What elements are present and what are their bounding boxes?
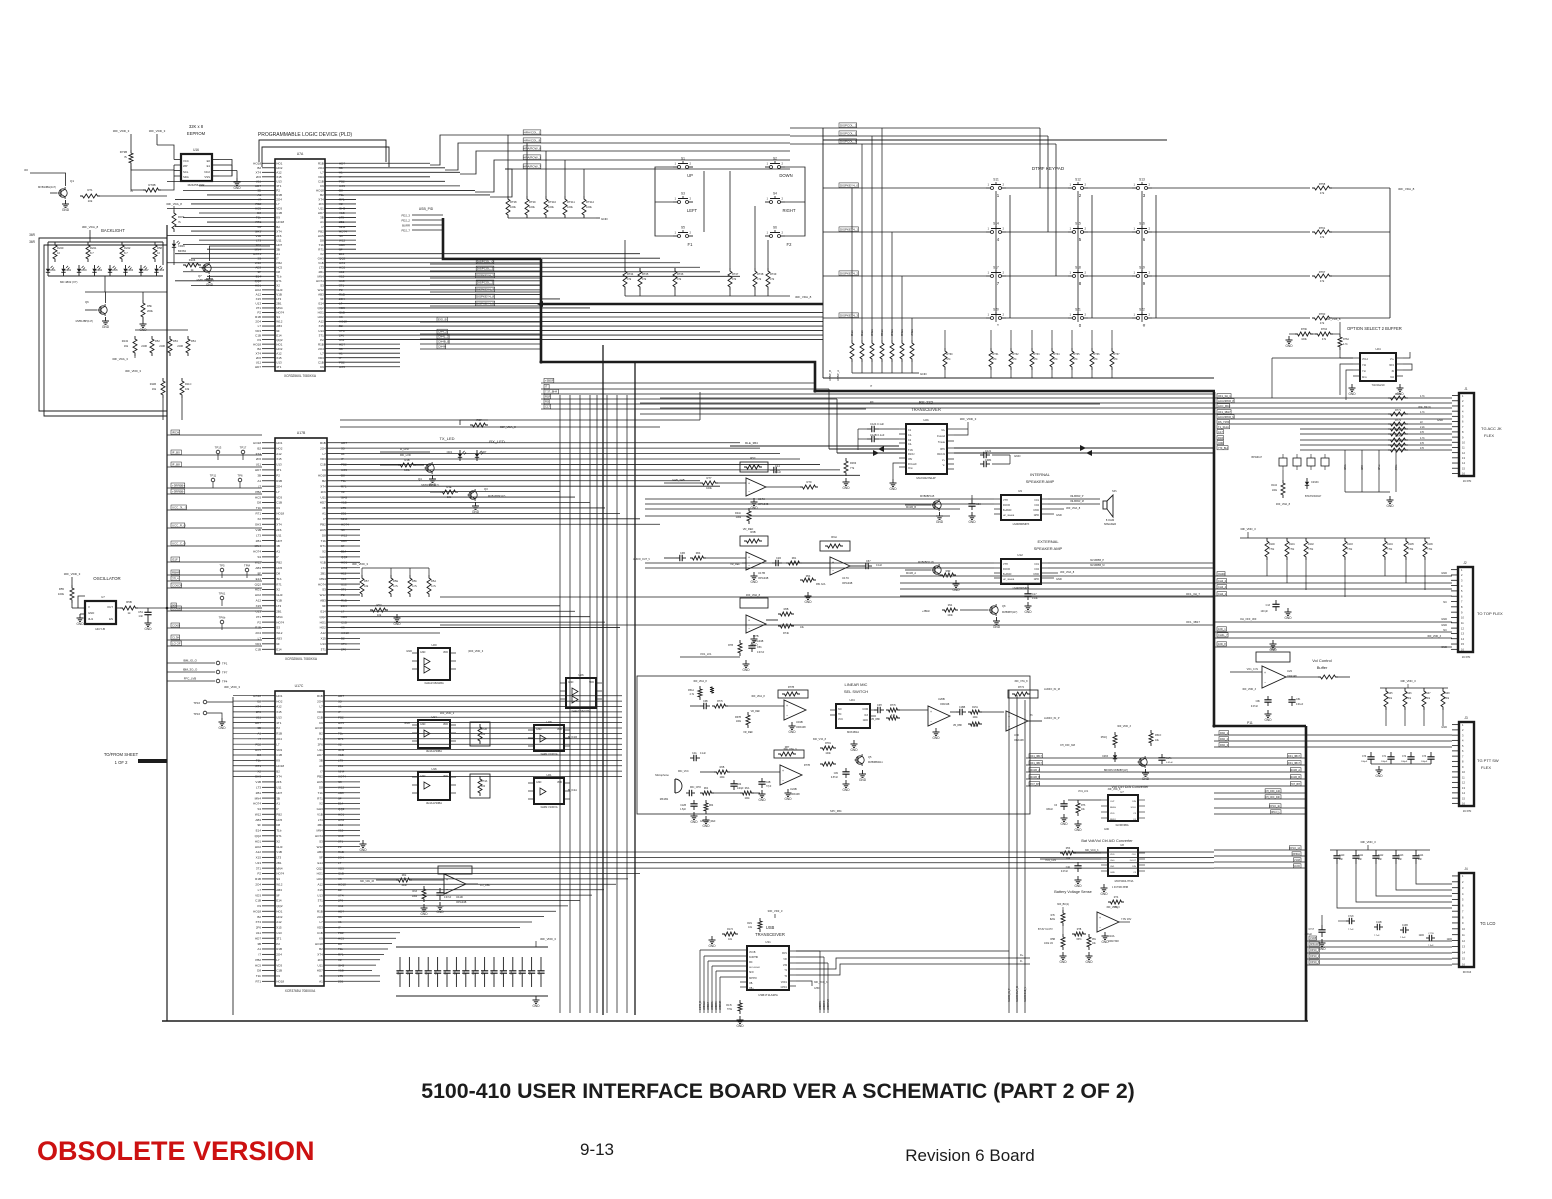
svg-text:U12: U12 xyxy=(1017,553,1023,557)
svg-text:2O4: 2O4 xyxy=(318,347,324,351)
svg-text:XT4: XT4 xyxy=(320,484,326,488)
svg-text:770k: 770k xyxy=(1408,548,1414,551)
svg-text:VD3: VD3 xyxy=(255,329,261,333)
svg-text:LINEAR MIC: LINEAR MIC xyxy=(845,682,868,687)
svg-text:FLEX: FLEX xyxy=(1481,765,1491,770)
svg-text:+: + xyxy=(1264,671,1266,675)
svg-text:AB3: AB3 xyxy=(320,599,326,603)
resistor R76m xyxy=(1338,334,1342,350)
svg-text:L7: L7 xyxy=(319,705,323,709)
svg-text:C2R: C2R xyxy=(776,557,781,560)
svg-text:I/O2: I/O2 xyxy=(1034,568,1039,571)
svg-text:PAD_1: PAD_1 xyxy=(1220,731,1229,735)
svg-text:R242: R242 xyxy=(124,246,131,250)
svg-text:1 OF 2: 1 OF 2 xyxy=(115,760,128,765)
svg-text:A12: A12 xyxy=(276,351,282,355)
svg-text:2B1: 2B1 xyxy=(276,609,282,613)
resistor R70B xyxy=(143,188,161,192)
svg-text:L7: L7 xyxy=(276,742,280,746)
svg-text:MK1B1: MK1B1 xyxy=(660,797,669,801)
svg-text:GND: GND xyxy=(420,723,426,726)
svg-text:UCC_C_O: UCC_C_O xyxy=(172,542,187,546)
svg-text:2F6: 2F6 xyxy=(256,457,262,461)
svg-text:INL3BKR_M: INL3BKR_M xyxy=(1070,500,1084,503)
switch S3 LEFT xyxy=(673,201,678,203)
svg-text:77k: 77k xyxy=(850,466,855,470)
U19B gnd xyxy=(791,722,793,726)
svg-text:2B1: 2B1 xyxy=(317,823,323,827)
svg-text:LM4890MPX: LM4890MPX xyxy=(1013,522,1030,526)
svg-text:OPA348: OPA348 xyxy=(940,703,950,706)
svg-text:GND: GND xyxy=(1142,777,1150,781)
svg-text:100k: 100k xyxy=(58,592,65,596)
svg-text:R105: R105 xyxy=(1408,543,1414,546)
svg-text:30F_VDD_3: 30F_VDD_3 xyxy=(1240,527,1256,531)
svg-text:HO18: HO18 xyxy=(315,726,323,730)
J2 pullup bank xyxy=(1240,537,1430,539)
svg-text:47k: 47k xyxy=(1320,321,1325,325)
resistor R76b xyxy=(1295,332,1313,336)
svg-text:X15: X15 xyxy=(256,604,262,608)
svg-text:R6B: R6B xyxy=(750,530,755,534)
resistor R41b xyxy=(747,508,751,524)
svg-text:W12: W12 xyxy=(276,320,283,324)
svg-text:30F_VCO_3: 30F_VCO_3 xyxy=(814,981,828,984)
svg-text:GH3: GH3 xyxy=(276,845,283,849)
DF1 wire bundle 2 xyxy=(1214,792,1305,794)
svg-text:100k: 100k xyxy=(1272,489,1278,492)
U17A input R xyxy=(700,481,718,485)
svg-text:T1b: T1b xyxy=(276,577,282,581)
switch wires 2 xyxy=(785,167,805,236)
svg-text:GND: GND xyxy=(429,483,437,487)
U10A gnd xyxy=(1104,932,1106,936)
svg-text:W12: W12 xyxy=(318,288,325,292)
U17B gnd2 xyxy=(753,572,755,576)
svg-text:MIC_CHO: MIC_CHO xyxy=(690,786,701,789)
svg-text:PB2: PB2 xyxy=(320,522,326,526)
IC U2b RS232 box xyxy=(906,424,947,474)
svg-text:77pF: 77pF xyxy=(766,786,772,788)
keypad col elbows xyxy=(995,191,997,322)
svg-text:GND: GND xyxy=(1318,947,1326,951)
svg-text:I31F: I31F xyxy=(172,558,178,562)
svg-text:Q7: Q7 xyxy=(198,274,202,278)
J2 feed wires xyxy=(900,575,1452,577)
svg-text:CH4L_2: CH4L_2 xyxy=(438,335,449,339)
svg-text:PD2_7: PD2_7 xyxy=(401,229,410,233)
svg-text:U11: U11 xyxy=(276,238,282,242)
wire rd lvd xyxy=(380,451,430,453)
svg-text:100k: 100k xyxy=(736,516,742,519)
Q10 gnd xyxy=(939,512,941,516)
svg-text:U11: U11 xyxy=(276,533,282,537)
U17D gnd xyxy=(753,635,755,639)
usb r17 xyxy=(758,918,762,932)
svg-text:E0: E0 xyxy=(207,159,211,163)
svg-text:HC: HC xyxy=(838,713,842,716)
svg-text:X15: X15 xyxy=(276,356,282,360)
svg-text:PB2: PB2 xyxy=(276,261,282,265)
svg-text:R76A: R76A xyxy=(1343,338,1349,341)
DF1 wire bundle 3 xyxy=(1214,849,1305,851)
svg-text:XT4: XT4 xyxy=(255,920,261,924)
svg-text:R53: R53 xyxy=(173,339,178,343)
U26B gnd xyxy=(935,728,937,732)
svg-text:V/OD: V/OD xyxy=(1033,573,1039,576)
svg-text:CH4M: CH4M xyxy=(438,345,447,349)
svg-text:T1b: T1b xyxy=(321,539,327,543)
svg-text:Vol Control: Vol Control xyxy=(1312,658,1332,663)
svg-text:GND: GND xyxy=(736,1024,744,1028)
svg-text:47k: 47k xyxy=(1320,235,1325,239)
svg-text:HO2: HO2 xyxy=(276,347,283,351)
svg-text:GND: GND xyxy=(1285,344,1293,348)
svg-text:F1: F1 xyxy=(688,242,694,247)
svg-text:LT3: LT3 xyxy=(318,818,323,822)
svg-text:HD7: HD7 xyxy=(276,791,282,795)
svg-text:CPxx: CPxx xyxy=(1379,464,1381,470)
svg-text:100k: 100k xyxy=(401,884,407,887)
svg-text:CR02: CR02 xyxy=(65,269,72,272)
svg-text:I7: I7 xyxy=(276,555,279,559)
svg-text:HP_3BH0B: HP_3BH0B xyxy=(1003,515,1015,517)
U24 left wires xyxy=(1340,364,1353,395)
svg-text:220R: 220R xyxy=(141,345,147,348)
svg-text:HO2: HO2 xyxy=(276,915,283,919)
svg-text:A1: A1 xyxy=(276,802,280,806)
svg-text:HD7: HD7 xyxy=(255,365,261,369)
svg-text:HC5: HC5 xyxy=(255,963,261,967)
bus vertical x541 xyxy=(540,259,543,362)
svg-text:HD7: HD7 xyxy=(276,539,282,543)
svg-text:2F6: 2F6 xyxy=(256,175,262,179)
keypad left rail top xyxy=(822,128,824,140)
svg-text:C8b: C8b xyxy=(834,773,839,775)
svg-text:R100: R100 xyxy=(1269,543,1275,546)
usb r17b xyxy=(738,1000,742,1014)
switch wires 1 xyxy=(655,167,673,236)
svg-text:−: − xyxy=(930,719,932,723)
svg-text:U8: U8 xyxy=(1120,843,1124,847)
mic q5 cap xyxy=(845,768,847,772)
svg-text:3B: 3B xyxy=(276,796,280,800)
svg-text:3T1: 3T1 xyxy=(321,647,327,651)
svg-text:VCC: VCC xyxy=(183,159,189,163)
svg-text:16k: 16k xyxy=(124,344,129,348)
svg-text:EN: EN xyxy=(109,617,113,621)
svg-text:30F_VDD_3: 30F_VDD_3 xyxy=(540,937,556,941)
svg-text:GND: GND xyxy=(1386,504,1394,508)
svg-text:V1B: V1B xyxy=(276,293,282,297)
svg-text:C1-: C1- xyxy=(908,434,912,437)
svg-text:100k: 100k xyxy=(529,205,535,209)
U17D out res xyxy=(766,619,778,621)
svg-text:OP1O_1b: OP1O_1b xyxy=(1269,805,1280,808)
svg-text:AUDIO/3UB_V: AUDIO/3UB_V xyxy=(1024,986,1027,1002)
svg-text:I7: I7 xyxy=(321,225,324,229)
svg-text:TG ACC JK: TG ACC JK xyxy=(1481,426,1502,431)
svg-text:4.7k: 4.7k xyxy=(689,693,694,696)
svg-text:S13: S13 xyxy=(1139,178,1145,182)
svg-text:CR08: CR08 xyxy=(158,269,165,272)
svg-text:U11: U11 xyxy=(318,748,324,752)
svg-text:AUDIO_IN_M: AUDIO_IN_M xyxy=(1044,687,1060,691)
svg-text:100k: 100k xyxy=(404,468,410,472)
svg-text:HO2: HO2 xyxy=(318,315,325,319)
svg-text:U17B: U17B xyxy=(297,431,306,435)
svg-text:HO2: HO2 xyxy=(255,288,262,292)
svg-text:V1O8: V1O8 xyxy=(1294,859,1301,862)
svg-text:W12: W12 xyxy=(255,561,262,565)
U11D cap xyxy=(439,888,441,893)
svg-text:R71: R71 xyxy=(276,582,282,586)
svg-text:R1B: R1B xyxy=(320,441,326,445)
svg-text:−: − xyxy=(782,778,784,782)
svg-text:HO18: HO18 xyxy=(253,161,261,165)
rs232 wire T xyxy=(829,448,906,450)
svg-text:14CY-B: 14CY-B xyxy=(95,627,105,631)
svg-text:DISPCOL_1: DISPCOL_1 xyxy=(840,132,857,136)
svg-text:HD7: HD7 xyxy=(255,936,261,940)
svg-text:Y1b: Y1b xyxy=(1362,365,1367,367)
svg-text:T1N: T1N xyxy=(908,449,913,452)
svg-text:X2: X2 xyxy=(276,284,280,288)
svg-text:P2: P2 xyxy=(320,338,324,342)
svg-text:R71: R71 xyxy=(255,980,261,984)
svg-text:30F_VCO_3: 30F_VCO_3 xyxy=(1085,849,1099,852)
svg-text:HO2: HO2 xyxy=(255,845,262,849)
svg-text:C1B: C1B xyxy=(255,899,261,903)
svg-text:R1B: R1B xyxy=(318,161,324,165)
svg-text:C4b: C4b xyxy=(1066,867,1071,869)
svg-text:B+PA/D: B+PA/D xyxy=(1003,573,1012,576)
svg-text:R363: R363 xyxy=(850,461,857,465)
svg-text:V-: V- xyxy=(943,464,946,467)
svg-text:BROWN MVB0BH(117): BROWN MVB0BH(117) xyxy=(1104,770,1128,772)
resistor R55 xyxy=(70,585,74,603)
svg-text:30F_VDA_8: 30F_VDA_8 xyxy=(82,225,99,229)
svg-text:GND: GND xyxy=(788,730,796,734)
IC U21b xyxy=(534,778,564,804)
svg-text:I/O1: I/O1 xyxy=(1034,563,1039,566)
svg-text:XT4: XT4 xyxy=(317,737,323,741)
svg-text:CH4_2: CH4_2 xyxy=(1218,579,1227,583)
svg-text:VD3: VD3 xyxy=(317,926,323,930)
svg-text:EIG_B: EIG_B xyxy=(438,318,447,322)
svg-text:100k: 100k xyxy=(567,205,573,209)
svg-text:V+: V+ xyxy=(942,459,946,462)
svg-text:S11: S11 xyxy=(993,178,999,182)
svg-text:GND: GND xyxy=(420,651,426,654)
svg-text:30F_VDD_3: 30F_VDD_3 xyxy=(1360,840,1376,844)
svg-text:8.7: 8.7 xyxy=(124,251,128,255)
svg-text:VD3: VD3 xyxy=(276,207,282,211)
svg-text:CH4B_B: CH4B_B xyxy=(438,340,449,344)
svg-text:QQ2: QQ2 xyxy=(255,582,262,586)
svg-text:REFH: REFH xyxy=(1110,807,1116,809)
wire q7 c xyxy=(210,246,271,261)
svg-text:V1B: V1B xyxy=(317,812,323,816)
svg-text:M+: M+ xyxy=(941,429,945,432)
transistor Q1 xyxy=(59,189,67,197)
svg-text:SPEAKER AMP: SPEAKER AMP xyxy=(1026,479,1055,484)
svg-text:R51 32A: R51 32A xyxy=(816,583,826,586)
svg-text:100k: 100k xyxy=(736,720,742,723)
svg-text:HO74: HO74 xyxy=(253,802,261,806)
svg-text:C11B: C11B xyxy=(1376,922,1382,924)
svg-text:GND: GND xyxy=(1074,884,1082,888)
DF1 wire bundle xyxy=(1026,757,1305,759)
svg-text:FOxxxF: FOxxxF xyxy=(908,463,917,466)
svg-text:A12: A12 xyxy=(256,293,262,297)
svg-text:30F_VDA_8: 30F_VDA_8 xyxy=(1276,502,1291,506)
svg-text:DISPCOL_0: DISPCOL_0 xyxy=(840,140,857,144)
svg-text:C717: C717 xyxy=(1309,929,1315,931)
svg-text:GND: GND xyxy=(536,781,542,784)
svg-text:S1: S1 xyxy=(681,157,685,161)
IC U24m box xyxy=(836,704,870,728)
svg-text:CR01: CR01 xyxy=(50,269,57,272)
svg-text:XT4: XT4 xyxy=(276,229,282,233)
svg-text:GND: GND xyxy=(702,824,710,828)
svg-text:E14: E14 xyxy=(318,302,324,306)
IC U9 pins xyxy=(994,498,1001,500)
svg-text:MD 4802 (X7): MD 4802 (X7) xyxy=(60,280,77,284)
svg-text:MVB13BH(117): MVB13BH(117) xyxy=(76,320,93,323)
svg-text:CR4: CR4 xyxy=(447,450,453,454)
gnd Q4 xyxy=(432,475,434,479)
U26B fb xyxy=(1008,690,1038,698)
svg-text:GND: GND xyxy=(1348,392,1356,396)
svg-text:9F: 9F xyxy=(319,856,323,860)
svg-text:V/OD: V/OD xyxy=(1033,509,1039,512)
svg-text:HO74: HO74 xyxy=(318,582,326,586)
U17C between xyxy=(772,562,776,564)
keypad switches xyxy=(986,187,991,189)
svg-text:CO60: CO60 xyxy=(172,624,180,628)
svg-text:0.1uF: 0.1uF xyxy=(1032,598,1038,600)
svg-text:B2: B2 xyxy=(319,732,323,736)
svg-text:TO/FROM SHEET: TO/FROM SHEET xyxy=(104,752,139,757)
svg-text:USB_PID: USB_PID xyxy=(419,207,434,211)
svg-text:RT49: RT49 xyxy=(770,272,777,276)
svg-text:30F_VDA_8: 30F_VDA_8 xyxy=(1066,506,1081,510)
svg-text:30F_VTA_3: 30F_VTA_3 xyxy=(783,748,797,751)
diode CR13C xyxy=(1306,478,1308,482)
sheet border left xyxy=(166,225,168,1021)
svg-text:AUDIO_OUT_V: AUDIO_OUT_V xyxy=(633,558,650,561)
svg-text:GND: GND xyxy=(804,600,812,604)
svg-text:30F_VDD_3: 30F_VDD_3 xyxy=(224,685,240,689)
led CR7 xyxy=(476,450,478,454)
U17C right wires xyxy=(337,695,622,697)
svg-text:R5b: R5b xyxy=(147,304,152,308)
svg-text:HO1: HO1 xyxy=(276,694,283,698)
op-amp U30 xyxy=(1006,711,1028,731)
U17D feedback xyxy=(740,598,768,608)
svg-text:30F_VDb_8: 30F_VDb_8 xyxy=(1108,788,1121,791)
svg-text:R5E: R5E xyxy=(393,579,398,583)
svg-text:−: − xyxy=(748,627,750,631)
svg-text:HO18: HO18 xyxy=(276,512,284,516)
svg-text:O9R: O9R xyxy=(1218,441,1223,445)
svg-text:BZX84: BZX84 xyxy=(178,249,186,253)
svg-text:OPA348: OPA348 xyxy=(1287,674,1297,678)
svg-text:K9: K9 xyxy=(319,936,323,940)
svg-text:C1B: C1B xyxy=(317,931,323,935)
svg-text:C1BB: C1BB xyxy=(959,706,966,709)
svg-text:AB3: AB3 xyxy=(276,888,282,892)
svg-text:R243: R243 xyxy=(122,339,129,343)
svg-text:R104: R104 xyxy=(1271,484,1277,487)
svg-text:C114: C114 xyxy=(1418,855,1424,857)
svg-text:DISPKEY4_5: DISPKEY4_5 xyxy=(476,302,494,306)
svg-text:OH_OFF_440: OH_OFF_440 xyxy=(1265,790,1281,793)
EEPROM gnd xyxy=(236,178,238,182)
svg-text:OP1O_L: OP1O_L xyxy=(1271,811,1281,814)
U26B in2 xyxy=(886,716,900,720)
svg-text:10k: 10k xyxy=(377,613,382,617)
cap C124 xyxy=(867,428,872,430)
svg-text:74C3G210: 74C3G210 xyxy=(1372,383,1386,387)
svg-text:30F_VDA_8: 30F_VDA_8 xyxy=(166,202,182,206)
svg-text:HO1: HO1 xyxy=(320,620,327,624)
switch S5 F1 xyxy=(673,235,678,237)
wire over pld 2 xyxy=(262,147,389,167)
svg-text:+: + xyxy=(782,769,784,773)
svg-text:3H4A1V30BA: 3H4A1V30BA xyxy=(426,749,442,753)
cap C17 xyxy=(1027,590,1029,594)
cap C1BB xyxy=(956,711,960,713)
svg-text:30F_VDD_3: 30F_VDD_3 xyxy=(352,562,368,566)
svg-text:RT39: RT39 xyxy=(529,200,536,204)
svg-text:U11: U11 xyxy=(319,207,325,211)
switch S1 UP xyxy=(673,166,678,168)
svg-text:C6H: C6H xyxy=(877,704,882,707)
svg-text:A1: A1 xyxy=(319,764,323,768)
gnd Q6 xyxy=(105,317,107,321)
svg-text:Revision 6 Board: Revision 6 Board xyxy=(905,1146,1034,1165)
svg-text:L7: L7 xyxy=(322,452,326,456)
svg-text:A1: A1 xyxy=(257,947,261,951)
svg-text:AB3: AB3 xyxy=(276,324,282,328)
IC U12 box xyxy=(1001,559,1041,584)
svg-text:C13: C13 xyxy=(1266,604,1271,607)
svg-text:U3BBF0: U3BBF0 xyxy=(716,1001,718,1010)
IC U16 pins xyxy=(174,159,181,161)
svg-text:9F: 9F xyxy=(320,297,324,301)
svg-text:R240: R240 xyxy=(57,246,64,250)
svg-text:36R: 36R xyxy=(29,233,36,237)
svg-text:GND: GND xyxy=(472,510,480,514)
U12 out wires xyxy=(1048,562,1214,564)
svg-text:E14: E14 xyxy=(276,333,282,337)
gnd R76b xyxy=(1288,336,1290,340)
svg-text:3T1: 3T1 xyxy=(319,333,325,337)
svg-text:X15: X15 xyxy=(256,856,262,860)
svg-text:R1B: R1B xyxy=(317,694,323,698)
svg-text:VD3: VD3 xyxy=(318,356,324,360)
svg-text:CR03: CR03 xyxy=(81,269,88,272)
svg-text:GND: GND xyxy=(750,506,758,510)
svg-text:DISPCOL_1: DISPCOL_1 xyxy=(477,267,494,271)
svg-text:QQ2: QQ2 xyxy=(317,306,324,310)
svg-text:A12: A12 xyxy=(256,850,262,854)
svg-text:OB+: OB+ xyxy=(749,988,754,990)
svg-text:R79: R79 xyxy=(807,480,812,484)
svg-text:OF1_3B17: OF1_3B17 xyxy=(1186,620,1200,624)
